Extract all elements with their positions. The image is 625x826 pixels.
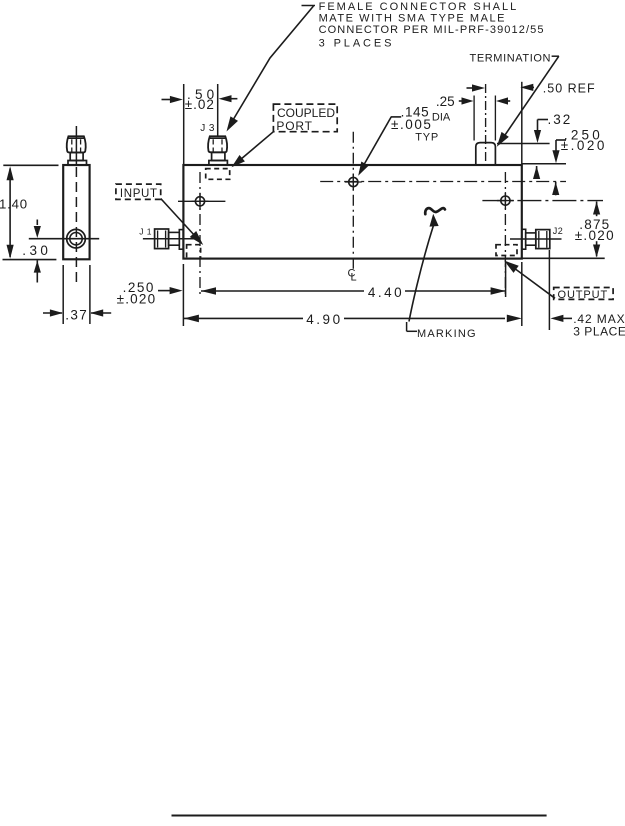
svg-text:FEMALE CONNECTOR SHALL: FEMALE CONNECTOR SHALL xyxy=(319,1,519,13)
svg-text:TYP: TYP xyxy=(415,131,439,143)
svg-text:3 PLACES: 3 PLACES xyxy=(319,37,395,49)
svg-text:J 3: J 3 xyxy=(200,123,215,134)
svg-text:1.40: 1.40 xyxy=(0,197,28,212)
svg-text:.30: .30 xyxy=(22,243,51,258)
svg-text:±.005: ±.005 xyxy=(391,117,432,132)
svg-text:J2: J2 xyxy=(553,226,564,236)
svg-text:OUTPUT: OUTPUT xyxy=(558,289,609,301)
svg-text:CONNECTOR PER MIL-PRF-39012/55: CONNECTOR PER MIL-PRF-39012/55 xyxy=(319,24,545,36)
svg-text:.50 REF: .50 REF xyxy=(543,82,596,96)
svg-text:±.020: ±.020 xyxy=(117,292,157,307)
svg-text:±.02: ±.02 xyxy=(185,97,215,112)
svg-text:DIA: DIA xyxy=(432,111,451,123)
svg-text:COUPLED: COUPLED xyxy=(277,106,335,120)
svg-text:J 1: J 1 xyxy=(139,227,152,237)
svg-text:.37: .37 xyxy=(65,307,88,322)
svg-text:TERMINATION: TERMINATION xyxy=(470,53,552,65)
svg-text:MATE WITH SMA TYPE MALE: MATE WITH SMA TYPE MALE xyxy=(319,12,506,24)
svg-text:.32: .32 xyxy=(548,112,573,127)
svg-text:±.020: ±.020 xyxy=(561,138,607,153)
svg-text:±.020: ±.020 xyxy=(575,228,615,243)
svg-text:.25: .25 xyxy=(436,94,455,109)
svg-text:PORT: PORT xyxy=(276,119,312,133)
svg-text:MARKING: MARKING xyxy=(417,328,477,340)
svg-text:4.40: 4.40 xyxy=(368,285,404,300)
svg-text:3 PLACES: 3 PLACES xyxy=(573,325,625,339)
svg-text:4.90: 4.90 xyxy=(306,312,342,327)
svg-text:INPUT: INPUT xyxy=(120,188,158,200)
svg-text:L: L xyxy=(351,272,357,284)
